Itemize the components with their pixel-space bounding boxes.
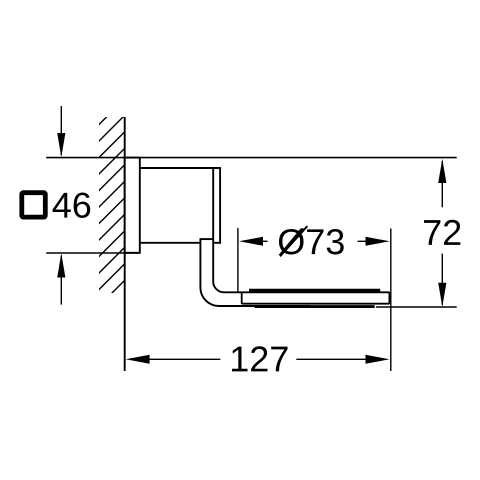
72 dimension line upper segment with arrow (pointing up) — [438, 159, 446, 208]
wall face line (also 127 left extension line) — [124, 117, 126, 371]
diameter 73 / 127 right extension line — [390, 229, 392, 372]
label 72 — [424, 220, 460, 245]
72 bottom extension line — [376, 306, 457, 308]
diameter symbol slash extension — [280, 226, 307, 256]
diameter 73 right arrow (pointing right) — [358, 237, 390, 246]
46 bottom dimension line — [46, 252, 140, 254]
soap dish bottom thick edge — [255, 305, 375, 308]
diameter 73 left arrow (pointing left) — [239, 237, 268, 246]
label 46 — [53, 192, 91, 217]
diameter 73 left extension line — [237, 228, 239, 292]
127 dimension line right segment with arrow (pointing right) — [296, 355, 389, 364]
46 upper arrow (pointing down) — [57, 106, 65, 157]
label diameter 73 — [279, 228, 344, 255]
square symbol of dimension 46 — [22, 193, 46, 217]
top dimension line (46 top / 72 top extension) — [46, 157, 457, 159]
holder body right edge — [219, 167, 221, 244]
soap dish top thick edge — [249, 289, 380, 292]
arm collar step line — [200, 238, 214, 240]
holder body bottom edge left segment — [140, 242, 200, 244]
mounting plate (side view) — [125, 158, 140, 253]
holder body bottom edge right segment — [213, 242, 221, 244]
46 lower arrow (pointing up) — [57, 253, 65, 304]
wall hatching — [97, 97, 127, 309]
soap dish outline — [242, 292, 390, 303]
support arm outer edge (bends right to dish bottom) — [200, 239, 310, 306]
72 dimension line lower segment with arrow (pointing down) — [438, 254, 446, 307]
support arm inner edge (from body top, bends right to dish) — [213, 167, 242, 292]
127 dimension line left segment with arrow (pointing left) — [126, 355, 221, 364]
label 127 — [232, 346, 288, 371]
holder body top edge — [140, 167, 221, 169]
